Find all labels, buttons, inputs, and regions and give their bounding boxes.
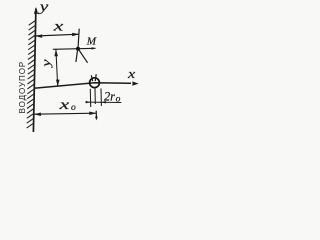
x0 left arrowhead [34,113,41,117]
near-vertical arrow down from M [76,49,78,62]
svg-text:M: M [86,35,97,47]
small blob at bottom of tick [95,117,98,121]
2r0 right extension line [100,89,102,107]
svg-text:о: о [116,94,121,104]
wall hatching [27,20,36,128]
short line above pipe (left) [91,75,92,81]
svg-text:x: x [127,66,136,81]
2r0 dimension line [86,101,121,103]
x0 right extension tick [95,111,97,119]
horizontal line through point M [53,48,95,49]
svg-text:y: y [37,0,49,15]
2r0 right arrowhead [101,101,106,104]
svg-text:о: о [71,103,76,113]
x0 right arrowhead [89,112,96,116]
y dimension bottom arrowhead [56,80,60,87]
x dimension line [35,34,79,36]
x-axis arrowhead [132,81,138,85]
pipe vertical center line below circle [94,89,96,105]
arrowhead at right end of horizontal line [92,47,97,49]
extension line from x dimension down to M [78,29,79,49]
short line above pipe (right) [95,74,96,81]
pipe circle [90,78,100,88]
wall / y-axis line [33,9,36,133]
diagonal arrow down-right from M [78,49,87,63]
2r0 left arrowhead [86,101,91,104]
point M dot [76,47,80,51]
svg-text:x: x [58,98,70,113]
x-axis [34,83,131,89]
svg-text:x: x [52,20,64,35]
y dimension top arrowhead [54,49,58,56]
y-axis arrowhead [34,7,38,14]
2r0 left extension line [89,89,91,107]
svg-text:ВОДОУПОР: ВОДОУПОР [18,61,27,114]
x dimension right arrowhead [72,33,79,37]
svg-text:2r: 2r [104,89,116,104]
x0 dimension line [34,113,96,114]
x dimension left arrowhead [35,34,42,38]
y dimension line [56,49,58,86]
